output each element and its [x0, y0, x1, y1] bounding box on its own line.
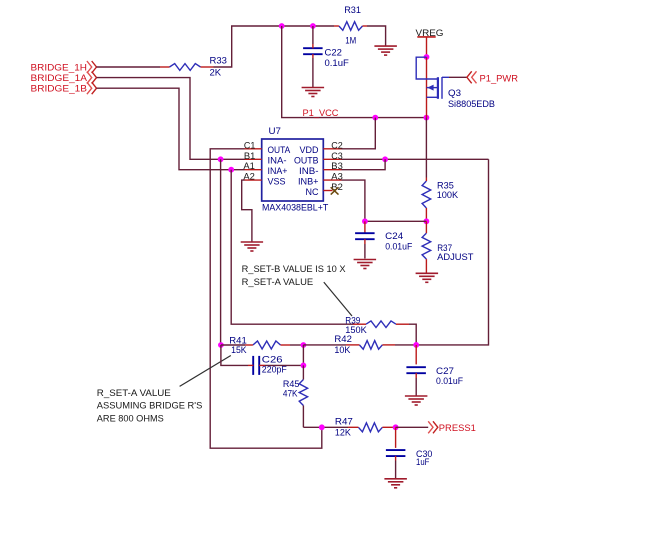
op-amp U7 box: [262, 126, 324, 201]
power VREG: [416, 28, 444, 39]
svg-text:1M: 1M: [345, 35, 356, 46]
svg-text:C24: C24: [385, 231, 403, 242]
pin B1 stub: [244, 151, 262, 162]
wire VDD leg: [342, 118, 376, 149]
wire C26 to R45 node: [265, 364, 303, 366]
annotation line to R39: [324, 282, 352, 316]
wire C24 to ground: [364, 244, 366, 259]
svg-text:OUTA: OUTA: [268, 145, 291, 156]
svg-text:INA-: INA-: [268, 156, 287, 167]
ground under C27: [405, 396, 428, 405]
wire R41-R42 node down: [302, 345, 304, 365]
port BRIDGE_1A: [31, 72, 97, 84]
resistor R35: [422, 178, 459, 222]
svg-text:PRESS1: PRESS1: [439, 423, 476, 434]
svg-text:MAX4038EBL+T: MAX4038EBL+T: [262, 202, 328, 213]
U7 part number MAX4038EBL+T: [262, 202, 328, 213]
node P1_VCC / Q3 drain: [424, 115, 430, 121]
wire OUTA long loop: [210, 149, 322, 448]
wire A1 leg to R39: [231, 170, 353, 325]
ground under R31: [374, 46, 397, 55]
svg-text:0.1uF: 0.1uF: [325, 58, 349, 69]
node A1 junction: [228, 167, 234, 173]
svg-text:U7: U7: [269, 126, 282, 137]
svg-text:VDD: VDD: [300, 145, 319, 156]
annotation line to R41: [180, 356, 231, 387]
wire BRIDGE_1B to pin A1: [97, 88, 245, 170]
svg-text:BRIDGE_1H: BRIDGE_1H: [31, 62, 88, 73]
wire INB- feedback: [342, 159, 386, 169]
wire OUTB row: [342, 158, 489, 160]
ground under C30: [384, 479, 407, 488]
wire BRIDGE_1A to pin B1: [97, 78, 245, 160]
node P1_VCC / VDD leg: [372, 115, 378, 121]
node R41 left: [218, 342, 224, 348]
svg-text:A1: A1: [243, 161, 255, 172]
svg-text:220pF: 220pF: [262, 365, 287, 376]
port BRIDGE_1B: [31, 82, 97, 94]
node top-rail / C22: [310, 23, 316, 29]
pin A1 stub: [243, 161, 261, 172]
wire R33 to top rail: [214, 26, 335, 67]
svg-text:R42: R42: [334, 334, 352, 345]
wire C30 to ground: [395, 461, 397, 479]
resistor R37: [422, 221, 474, 273]
wire C22 to ground: [312, 58, 314, 87]
svg-text:R_SET-A VALUE: R_SET-A VALUE: [242, 277, 314, 288]
pin A3 stub: [323, 172, 343, 183]
wire C27 to ground: [415, 378, 417, 396]
svg-text:P1_PWR: P1_PWR: [480, 73, 519, 84]
wire VSS hook: [242, 180, 252, 241]
svg-text:R_SET-A VALUE: R_SET-A VALUE: [97, 388, 171, 399]
note R_SET-A: [97, 388, 203, 424]
svg-text:A3: A3: [331, 172, 343, 183]
pin A2 stub: [243, 172, 261, 183]
svg-text:2K: 2K: [210, 68, 222, 79]
svg-text:R_SET-B VALUE IS 10 X: R_SET-B VALUE IS 10 X: [242, 264, 347, 275]
wire C24 row: [365, 220, 427, 222]
svg-text:R33: R33: [210, 56, 227, 67]
resistor R41: [221, 335, 304, 355]
wire Q3 drain to R35: [425, 118, 427, 178]
svg-text:0.01uF: 0.01uF: [436, 376, 463, 387]
svg-text:BRIDGE_1B: BRIDGE_1B: [31, 84, 88, 95]
svg-text:P1_VCC: P1_VCC: [303, 108, 339, 119]
node R47/C30/PRESS1: [393, 424, 399, 430]
wire R31 to ground: [367, 26, 386, 46]
svg-text:ASSUMING BRIDGE R'S: ASSUMING BRIDGE R'S: [97, 401, 203, 412]
svg-text:B2: B2: [331, 182, 343, 193]
resistor R47: [335, 417, 396, 439]
svg-text:B3: B3: [331, 161, 343, 172]
wire INB+ leg: [342, 180, 365, 221]
svg-text:15K: 15K: [231, 345, 247, 356]
pin C2 stub: [323, 140, 343, 151]
svg-text:1uF: 1uF: [416, 457, 430, 468]
svg-text:ARE 800 OHMS: ARE 800 OHMS: [97, 413, 164, 424]
node B1 junction: [218, 156, 224, 162]
svg-text:OUTB: OUTB: [294, 156, 319, 167]
note R_SET-B: [242, 264, 347, 288]
node OUTB / INB- feedback: [382, 156, 388, 162]
pin B2 stub (NC): [323, 182, 343, 195]
capacitor C26: [248, 355, 287, 376]
svg-text:BRIDGE_1A: BRIDGE_1A: [31, 73, 88, 84]
port P1_PWR: [467, 71, 518, 84]
wire B1 leg down: [220, 159, 222, 345]
port BRIDGE_1H: [31, 61, 97, 73]
resistor R39: [345, 316, 409, 337]
pin B3 stub: [323, 161, 343, 172]
node R35/R37/C24 junction: [424, 218, 430, 224]
svg-text:C1: C1: [244, 140, 256, 151]
wire VREG to Q3: [426, 37, 428, 57]
svg-text:0.01uF: 0.01uF: [385, 242, 412, 253]
svg-text:100K: 100K: [437, 190, 459, 201]
node R42/C27 junction: [413, 342, 419, 348]
ground VSS: [241, 242, 263, 251]
svg-text:C22: C22: [325, 47, 342, 58]
svg-text:C2: C2: [331, 140, 343, 151]
pin C1 stub: [244, 140, 262, 151]
ground under R37: [416, 273, 439, 282]
resistor R31: [334, 5, 367, 46]
svg-text:R31: R31: [344, 5, 361, 16]
node C26/R45 junction: [301, 363, 307, 369]
transistor Q3: [416, 57, 495, 118]
wire P1_VCC rail: [282, 26, 427, 118]
wire R41 to C26: [221, 345, 248, 365]
wire R39 to node: [409, 324, 416, 345]
node C24 top: [362, 218, 368, 224]
node R47 row / OUTA loop: [319, 424, 325, 430]
resistor R33: [160, 56, 227, 79]
svg-text:Si8805EDB: Si8805EDB: [448, 99, 495, 110]
svg-text:12K: 12K: [335, 428, 352, 439]
wire BRIDGE_1H to R33: [97, 66, 161, 68]
net label P1_VCC: [303, 108, 339, 119]
node VREG / Q3 source: [424, 54, 430, 60]
capacitor C22: [303, 44, 349, 69]
svg-text:R47: R47: [335, 417, 353, 428]
ground under C24: [354, 260, 377, 269]
svg-text:INA+: INA+: [268, 166, 288, 177]
port PRESS1: [428, 421, 476, 434]
U7 pin names: [268, 145, 319, 198]
ground under C22: [302, 88, 325, 97]
svg-text:ADJUST: ADJUST: [437, 252, 474, 263]
node R41/R42 junction: [301, 342, 307, 348]
svg-text:C3: C3: [331, 151, 343, 162]
resistor R45: [283, 365, 308, 427]
wire Q3 gate to port: [449, 76, 467, 78]
wire to PRESS1 port: [396, 426, 429, 428]
capacitor C30: [386, 427, 433, 468]
node top-rail / P1_VCC leg: [279, 23, 285, 29]
capacitor C24: [355, 221, 412, 252]
svg-text:Q3: Q3: [448, 88, 461, 99]
pin C3 stub: [323, 151, 343, 162]
svg-text:NC: NC: [306, 187, 319, 198]
svg-text:B1: B1: [244, 151, 256, 162]
svg-text:10K: 10K: [334, 345, 351, 356]
svg-text:A2: A2: [243, 172, 255, 183]
wire R45 to R47 row: [303, 426, 348, 428]
capacitor C27: [406, 345, 463, 387]
wire feedback right vertical: [416, 159, 488, 345]
svg-text:INB+: INB+: [298, 176, 319, 187]
wire top rail to C22: [312, 26, 314, 44]
svg-text:47K: 47K: [283, 389, 298, 400]
svg-text:INB-: INB-: [299, 166, 319, 177]
resistor R42: [303, 334, 416, 356]
svg-text:VSS: VSS: [268, 176, 286, 187]
